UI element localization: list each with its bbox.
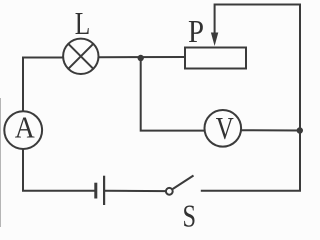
voltmeter circle: [205, 110, 242, 147]
junction node after lamp: [138, 55, 144, 61]
wire junction down to voltmeter branch: [141, 58, 205, 131]
battery long plate (positive): [103, 176, 105, 205]
junction node right rail: [297, 127, 303, 133]
svg-text:P: P: [188, 13, 204, 49]
battery short plate (negative): [94, 183, 97, 199]
wire voltmeter-right to right rail: [241, 129, 300, 131]
lamp L (circle with X): [63, 39, 98, 74]
scan artifact line at left edge: [0, 98, 2, 227]
wire top rail: wiper riser across and down right rail: [215, 5, 300, 191]
ammeter U=A circle: [4, 111, 42, 149]
svg-text:S: S: [182, 197, 196, 227]
wire lamp-right to junction to rheostat left terminal: [98, 56, 185, 58]
wire lamp-left to top-left corner: [23, 58, 64, 112]
switch lever: [173, 176, 194, 190]
wire switch to bottom-right corner: [201, 190, 301, 192]
switch pivot circle: [166, 188, 173, 195]
wire battery to switch pivot: [105, 190, 167, 192]
svg-text:A: A: [15, 110, 36, 145]
svg-text:L: L: [75, 5, 91, 41]
svg-text:V: V: [216, 110, 234, 146]
wire ammeter bottom to bottom-left corner to battery: [23, 149, 95, 191]
rheostat wiper arrowhead: [211, 33, 218, 47]
rheostat P body: [185, 48, 246, 69]
